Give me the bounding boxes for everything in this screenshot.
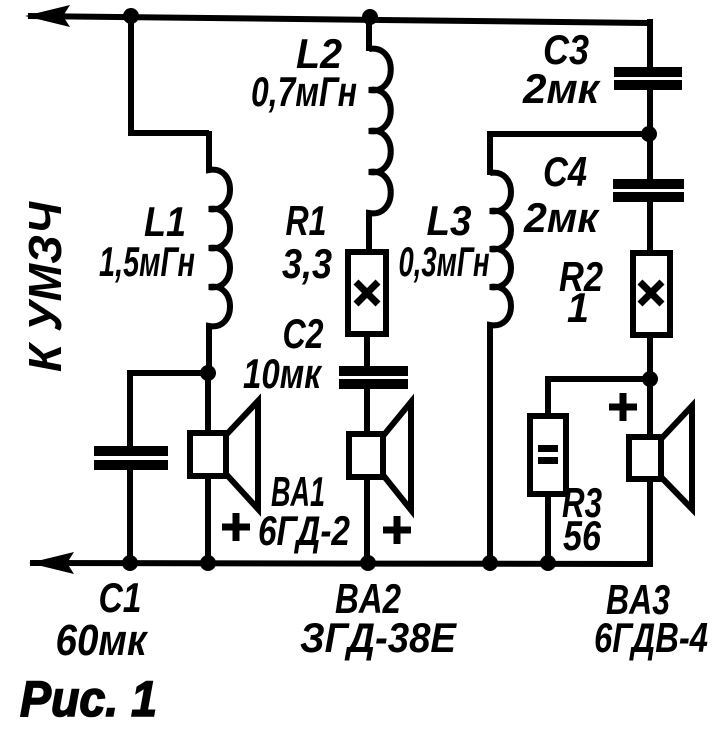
node R2 bottom — [642, 371, 658, 387]
svg-text:0,7мГн: 0,7мГн — [251, 68, 357, 115]
wire top bus right drop — [647, 19, 653, 70]
wire BA1 bottom lead — [205, 476, 211, 564]
wire left drop to L1 — [131, 16, 209, 133]
svg-text:3,3: 3,3 — [282, 240, 332, 287]
polarity plus BA2 — [383, 516, 411, 544]
svg-text:К УМЗЧ: К УМЗЧ — [19, 201, 71, 372]
node top-left junction — [123, 8, 139, 24]
polarity plus BA3 — [609, 393, 637, 421]
wire L3 top link — [490, 134, 648, 175]
svg-text:0,3мГн: 0,3мГн — [399, 238, 490, 285]
wire BA2 bottom lead — [364, 477, 370, 564]
label R1 — [282, 197, 332, 287]
wire BA3 bottom lead — [647, 479, 653, 563]
speaker BA1 — [190, 401, 258, 509]
node BA2 bottom — [360, 555, 376, 571]
wire C2 to BA2 — [364, 388, 370, 437]
label L3 — [399, 197, 490, 285]
svg-text:R1: R1 — [286, 197, 327, 244]
svg-text:C1: C1 — [99, 574, 142, 621]
svg-text:1,5мГн: 1,5мГн — [99, 238, 195, 285]
wire bottom bus — [30, 563, 653, 564]
svg-text:2мк: 2мк — [523, 194, 600, 241]
wire top bus — [28, 16, 650, 23]
wire C3 to node — [647, 89, 653, 136]
capacitor C2 — [339, 366, 408, 389]
node L2 top — [362, 9, 378, 25]
node at L1 bottom — [200, 365, 216, 381]
svg-text:Рис. 1: Рис. 1 — [20, 671, 157, 727]
svg-text:10мк: 10мк — [243, 350, 322, 397]
label L1 — [99, 198, 195, 285]
speaker BA2 — [349, 402, 411, 510]
node C1 bottom — [122, 555, 138, 571]
wire L2 top lead — [366, 17, 372, 51]
svg-text:2мк: 2мк — [522, 65, 601, 112]
inductor L3 — [490, 173, 511, 564]
label C3 — [522, 26, 601, 112]
svg-text:6ГДВ-4: 6ГДВ-4 — [594, 614, 708, 661]
inductor L1 — [209, 131, 230, 373]
label BA3 — [594, 576, 708, 661]
wire R3 branch — [548, 379, 650, 419]
svg-text:ЗГД-38Е: ЗГД-38Е — [300, 614, 458, 661]
wire R1 to C2 — [364, 334, 370, 369]
wire node to C4 — [647, 134, 653, 182]
label C1 — [56, 574, 149, 665]
label L2 — [251, 30, 357, 115]
wire BA1 top lead — [205, 373, 211, 436]
wire R2 to node — [647, 335, 653, 381]
wire C1 branch top — [130, 373, 208, 449]
svg-text:56: 56 — [563, 512, 602, 559]
wire BA3 top lead — [647, 379, 653, 440]
svg-text:60мк: 60мк — [56, 616, 149, 665]
arrow to amplifier bottom — [29, 552, 74, 574]
capacitor C3 — [614, 67, 682, 90]
resistor R2 — [633, 253, 670, 335]
node C3 C4 junction — [641, 126, 657, 142]
capacitor C1 — [94, 446, 168, 470]
wire R3 to bottom bus — [545, 491, 551, 564]
capacitor C4 — [613, 179, 684, 202]
svg-text:6ГД-2: 6ГД-2 — [258, 507, 350, 554]
label R2 — [559, 253, 603, 331]
wire C4 to R2 — [647, 201, 653, 256]
label C2 — [243, 310, 324, 397]
inductor L2 — [369, 49, 391, 255]
label BA1 — [258, 468, 350, 554]
node L3 bottom — [482, 555, 498, 571]
speaker BA3 — [629, 406, 692, 509]
svg-text:C4: C4 — [543, 148, 587, 195]
label BA2 — [300, 575, 458, 661]
svg-text:1: 1 — [567, 284, 589, 331]
label R3 — [562, 479, 602, 559]
arrow to amplifier top — [25, 5, 70, 27]
resistor R3 — [530, 416, 566, 494]
label C4 — [523, 148, 600, 241]
polarity plus BA1 — [222, 513, 250, 541]
wire C1 to bottom bus — [127, 468, 133, 564]
node R3 bottom — [540, 555, 556, 571]
svg-text:L3: L3 — [427, 197, 472, 244]
resistor R1 — [348, 252, 386, 334]
node BA1 bottom — [200, 555, 216, 571]
